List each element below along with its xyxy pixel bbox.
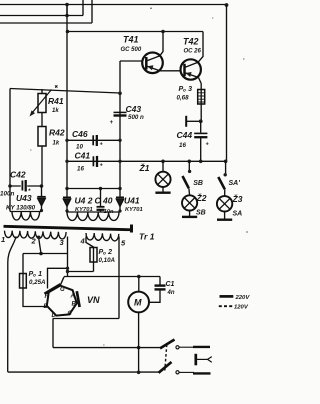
wire lower contact <box>180 371 195 373</box>
wire T42 emitter <box>199 78 202 84</box>
node M vertical lower <box>137 371 141 375</box>
switch linkage dashed <box>165 345 167 371</box>
svg-text:120V: 120V <box>234 305 249 311</box>
svg-text:KY701: KY701 <box>125 207 143 213</box>
svg-text:Ž1: Ž1 <box>139 162 150 173</box>
node tap2 junction <box>39 252 43 256</box>
svg-text:C46: C46 <box>72 129 88 139</box>
svg-text:Tr 1: Tr 1 <box>139 232 155 242</box>
svg-text:C43: C43 <box>126 104 142 114</box>
wire left branch vertical <box>9 89 11 212</box>
svg-text:R41: R41 <box>48 96 64 106</box>
svg-text:F: F <box>45 294 49 300</box>
svg-text:B: B <box>72 302 77 308</box>
wire brush F feed <box>48 268 68 288</box>
wire T41 collector <box>160 32 163 56</box>
wire C43 vertical / T41 base drop <box>119 61 121 189</box>
svg-text:C42: C42 <box>10 170 26 180</box>
svg-text:2: 2 <box>31 237 37 246</box>
node bus left <box>65 160 68 163</box>
node A1 junction <box>65 3 69 7</box>
node bus C44 <box>199 160 203 164</box>
node C46 left <box>65 139 68 142</box>
svg-text:0,25A: 0,25A <box>29 279 46 286</box>
svg-text:Pₒ 1: Pₒ 1 <box>29 271 43 278</box>
node R42 bottom junction <box>40 184 44 188</box>
fuse Po3 <box>198 84 205 122</box>
svg-text:SA: SA <box>233 211 243 218</box>
resistor R41 trimmer <box>30 89 52 127</box>
svg-text:U41: U41 <box>124 196 140 206</box>
svg-text:16: 16 <box>179 142 186 149</box>
wire lamp bus / C41 row <box>67 160 227 162</box>
motor VN brush F <box>45 284 61 294</box>
svg-text:T42: T42 <box>183 37 199 47</box>
svg-text:5: 5 <box>121 239 126 248</box>
svg-text:C44: C44 <box>177 130 193 140</box>
svg-text:D: D <box>52 313 57 319</box>
wire upper contact <box>180 346 195 348</box>
svg-text:OC 26: OC 26 <box>184 49 202 55</box>
svg-text:SA': SA' <box>229 180 241 187</box>
svg-text:+: + <box>110 120 114 126</box>
wire motor M top row <box>64 276 160 278</box>
motor VN body <box>47 286 77 316</box>
svg-text:R42: R42 <box>49 128 65 138</box>
node M vertical upper <box>137 346 141 350</box>
wire right rail vertical <box>226 5 228 161</box>
node D T41 junction <box>161 30 165 34</box>
capacitor C40 <box>97 189 105 213</box>
svg-text:Pₒ 3: Pₒ 3 <box>179 86 193 93</box>
svg-text:KY 130/80: KY 130/80 <box>6 205 36 212</box>
transistor T41 <box>142 53 163 74</box>
node A2 junction top right <box>225 3 229 7</box>
node bus C43 vertical <box>118 160 121 163</box>
wire top line C <box>0 22 92 24</box>
svg-text:100n: 100n <box>0 191 15 198</box>
speck near R41 <box>55 85 58 87</box>
svg-text:T41: T41 <box>123 35 139 45</box>
wire Po2 bottom to tap3 node <box>68 271 94 273</box>
wire tap5 down <box>118 237 120 319</box>
svg-text:4n: 4n <box>167 290 175 296</box>
svg-text:U4 2: U4 2 <box>75 196 93 206</box>
wire C46 row <box>67 139 120 141</box>
transistor T42 <box>181 59 201 79</box>
transformer core end bar <box>130 225 133 233</box>
node Po2 junction <box>66 270 69 273</box>
fuse Po1 <box>20 254 27 289</box>
svg-text:+: + <box>206 142 210 148</box>
svg-text:16: 16 <box>77 166 84 173</box>
switch pole lower blade <box>159 362 172 373</box>
switch SA <box>218 161 227 189</box>
svg-text:+: + <box>100 163 104 169</box>
connector fork <box>208 357 212 363</box>
svg-text:1k: 1k <box>53 141 60 147</box>
svg-text:1k: 1k <box>52 108 59 114</box>
wire tap1 down left edge <box>8 237 16 372</box>
terminal bar <box>185 116 187 127</box>
svg-text:GC 500: GC 500 <box>121 47 142 53</box>
wire tap5 to motor bottom <box>53 318 120 320</box>
wire bottom line from tap1 <box>8 371 159 373</box>
node C42 left junction <box>8 184 12 188</box>
wire B up stub <box>82 0 84 16</box>
wire T41 emitter to T42 base <box>161 70 181 72</box>
capacitor C44 <box>194 121 207 161</box>
svg-text:M: M <box>134 298 142 308</box>
svg-text:C41: C41 <box>75 151 91 161</box>
node C43 top junction <box>118 92 122 96</box>
connector plug bar <box>194 354 197 366</box>
connector wire <box>197 358 208 360</box>
node rail C40 <box>99 187 102 190</box>
svg-text:Ž3: Ž3 <box>232 193 243 204</box>
wire rectifier rail <box>67 188 120 190</box>
node rail U41 <box>118 187 121 190</box>
wire left main vertical rail <box>66 5 68 189</box>
lamp Z1 <box>155 161 170 192</box>
svg-text:G: G <box>60 287 65 293</box>
speck dirt marks <box>150 7 152 9</box>
wire R41 top feed <box>10 89 120 94</box>
transformer Tr1 secondary winding 1 <box>10 212 42 221</box>
svg-text:Pₒ 2: Pₒ 2 <box>99 249 113 256</box>
wire motor D down <box>52 319 54 348</box>
motor VN brush right <box>77 291 80 307</box>
wire drop A1 to B <box>66 5 68 16</box>
node B junction <box>65 14 69 18</box>
svg-text:A: A <box>70 294 75 300</box>
capacitor C1 <box>149 277 165 303</box>
transformer Tr1 core <box>4 226 134 230</box>
diode U42 <box>63 189 71 213</box>
wire motor bottom to switch <box>53 347 160 349</box>
resistor R42 <box>38 127 46 187</box>
motor M <box>128 277 149 373</box>
switch lower contact circle <box>176 371 179 374</box>
node C46 right <box>118 139 121 142</box>
svg-text:U43: U43 <box>16 193 32 203</box>
node bus Z1 <box>161 160 165 164</box>
svg-text:+: + <box>100 142 104 148</box>
svg-text:10: 10 <box>76 144 83 151</box>
wire terminal to node <box>186 120 201 122</box>
svg-text:C1: C1 <box>166 281 175 288</box>
legend 220V line <box>220 295 234 298</box>
svg-text:SB: SB <box>193 180 203 187</box>
svg-text:SB: SB <box>196 210 206 217</box>
svg-text:C 40: C 40 <box>95 196 113 206</box>
svg-text:0,10A: 0,10A <box>99 257 116 264</box>
legend 120V line <box>219 305 233 307</box>
wire tap2 <box>39 238 41 254</box>
svg-text:3: 3 <box>60 238 65 247</box>
wire primary link row <box>23 253 68 255</box>
lamp Z3 <box>217 189 232 219</box>
svg-text:1: 1 <box>1 235 5 244</box>
svg-text:220V: 220V <box>235 295 251 301</box>
diode U41 <box>116 189 124 213</box>
node M top junction <box>137 275 141 279</box>
svg-text:Ž2: Ž2 <box>196 192 207 203</box>
lamp Z2 <box>182 188 197 217</box>
wire C up stub <box>91 0 93 23</box>
fuse Po2 <box>90 247 97 272</box>
svg-text:4: 4 <box>80 237 86 246</box>
wire tap3 down to motor <box>67 237 69 277</box>
switch SB <box>183 161 192 188</box>
wire top line B <box>0 15 83 17</box>
transformer Tr1 primary winding left <box>5 231 67 239</box>
capacitor C42 <box>10 180 42 192</box>
node D left junction <box>66 30 70 34</box>
node rail U42 <box>65 187 68 190</box>
node brush F feed <box>66 267 69 270</box>
svg-text:0,68: 0,68 <box>177 95 190 102</box>
svg-text:VN: VN <box>87 295 100 305</box>
wire top line D collector bus <box>69 31 203 33</box>
switch upper contact circle <box>176 346 179 349</box>
wire T42 collector <box>198 32 203 63</box>
diode U43 <box>37 186 45 212</box>
svg-text:500 n: 500 n <box>128 114 144 121</box>
capacitor C41 <box>93 156 97 167</box>
transformer Tr1 secondary winding 2 <box>66 212 120 220</box>
wire T41 base <box>120 60 142 62</box>
switch pole upper blade <box>160 340 175 349</box>
wire upper contact bold <box>193 346 210 348</box>
capacitor C43 <box>114 112 127 115</box>
wire tap4 <box>86 237 94 248</box>
node Po3/C44 junction <box>199 119 203 123</box>
wire top line A <box>0 4 227 6</box>
node bus SB <box>188 160 192 164</box>
transformer Tr1 primary winding right <box>86 233 119 241</box>
wire Po1 to brush E <box>23 289 47 307</box>
node bus SA <box>224 160 228 164</box>
svg-text:C: C <box>68 311 73 317</box>
capacitor C46 <box>93 135 97 146</box>
wire lower contact bold <box>193 372 211 374</box>
